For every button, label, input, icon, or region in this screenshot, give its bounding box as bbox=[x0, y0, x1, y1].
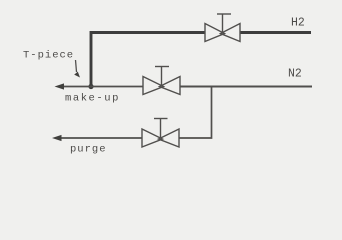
svg-text:T-piece: T-piece bbox=[23, 50, 74, 62]
svg-text:make-up: make-up bbox=[65, 93, 120, 105]
svg-text:H2: H2 bbox=[291, 16, 305, 29]
svg-text:N2: N2 bbox=[288, 68, 302, 81]
svg-text:purge: purge bbox=[70, 143, 107, 155]
